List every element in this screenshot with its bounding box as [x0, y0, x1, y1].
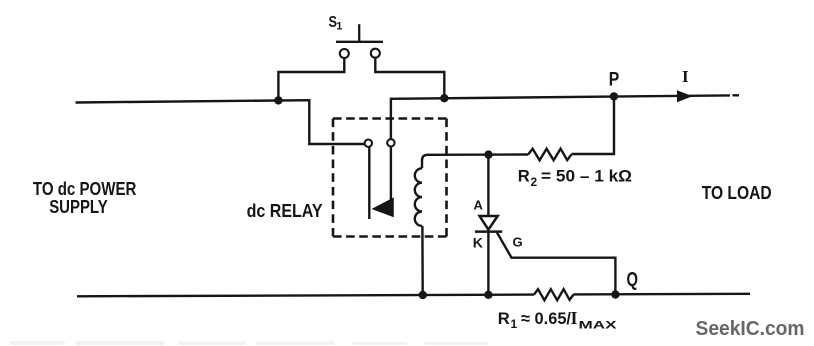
- wire SCR cathode to bottom rail: [487, 232, 489, 295]
- svg-text:R: R: [518, 167, 530, 186]
- switch S1 contact circles: [340, 49, 380, 58]
- svg-text:≈ 0.65/: ≈ 0.65/: [521, 309, 571, 328]
- svg-text:1: 1: [336, 21, 342, 33]
- relay contact 2 circle: [387, 139, 394, 146]
- wire bottom rail left segment: [77, 295, 534, 297]
- svg-text:K: K: [473, 234, 483, 250]
- faint cropped caption artifacts at bottom edge: [10, 341, 489, 345]
- wire top-left supply rail into relay contact 1: [76, 100, 365, 144]
- relay armature triangle: [372, 197, 394, 217]
- node coil bottom junction: [419, 291, 427, 299]
- svg-text:A: A: [474, 197, 484, 212]
- label TO dc POWER SUPPLY: [33, 179, 136, 217]
- svg-text:TO LOAD: TO LOAD: [702, 183, 772, 203]
- wire switch S1 right branch: [375, 58, 444, 98]
- svg-text:TO dc POWER: TO dc POWER: [33, 179, 136, 199]
- wire continuation dash at right end of top rail: [733, 94, 740, 96]
- node coil / R2 / SCR anode junction: [484, 150, 492, 158]
- relay contact 1 circle: [365, 140, 372, 147]
- svg-text:dc RELAY: dc RELAY: [247, 201, 323, 221]
- label R2 value: [518, 167, 632, 189]
- svg-text:MAX: MAX: [579, 319, 618, 331]
- relay coil L1: [415, 168, 422, 226]
- resistor R2: [528, 149, 571, 161]
- wire SCR anode: [487, 155, 489, 216]
- resistor R1: [534, 289, 574, 300]
- node left switch junction: [274, 96, 282, 104]
- wire bottom rail right segment: [573, 293, 750, 296]
- svg-text:Q: Q: [627, 269, 639, 291]
- svg-text:= 50 – 1 kΩ: = 50 – 1 kΩ: [541, 167, 632, 186]
- svg-text:I: I: [682, 67, 689, 86]
- wire top-right rail from relay contact 2 to load: [391, 95, 730, 138]
- label S1: [329, 14, 343, 32]
- node right switch junction: [440, 94, 448, 102]
- svg-text:I: I: [571, 308, 578, 328]
- svg-text:1: 1: [511, 317, 518, 331]
- relay box (dashed): [333, 119, 447, 237]
- svg-text:SUPPLY: SUPPLY: [49, 197, 107, 217]
- switch S1 actuator bar and stem: [336, 24, 383, 42]
- node Q: [611, 290, 619, 298]
- wire relay coil top to R2/SCR junction: [422, 155, 528, 169]
- wire R2 to node P: [572, 96, 615, 154]
- relay fixed contact pole wire: [368, 147, 370, 219]
- wire switch S1 left branch: [278, 58, 344, 100]
- node SCR cathode junction: [484, 291, 492, 299]
- wire SCR gate to node Q: [497, 233, 615, 295]
- relay armature wire: [390, 147, 392, 201]
- current arrow I: [677, 90, 693, 102]
- svg-text:G: G: [513, 235, 523, 250]
- svg-text:P: P: [609, 69, 620, 90]
- node P: [610, 92, 618, 100]
- wire relay coil bottom to bottom rail: [421, 226, 424, 295]
- label R1 value: [498, 308, 618, 331]
- SCR cathode bar: [475, 230, 502, 233]
- svg-text:2: 2: [531, 175, 538, 189]
- SCR U1 triangle: [480, 216, 498, 230]
- svg-text:R: R: [498, 309, 510, 328]
- svg-text:SeekIC.com: SeekIC.com: [696, 318, 805, 340]
